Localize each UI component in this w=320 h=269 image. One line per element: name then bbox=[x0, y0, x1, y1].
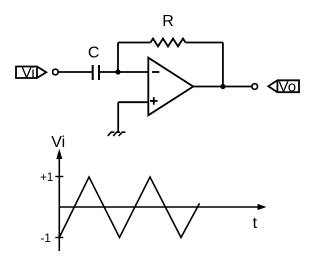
svg-text:C: C bbox=[88, 44, 100, 61]
svg-text:+1: +1 bbox=[40, 172, 53, 184]
svg-text:Vi: Vi bbox=[51, 134, 65, 151]
svg-text:Vo: Vo bbox=[279, 79, 297, 96]
svg-text:R: R bbox=[162, 13, 174, 30]
svg-text:-1: -1 bbox=[41, 233, 51, 245]
svg-text:t: t bbox=[253, 215, 258, 232]
svg-text:Vi: Vi bbox=[22, 64, 35, 81]
